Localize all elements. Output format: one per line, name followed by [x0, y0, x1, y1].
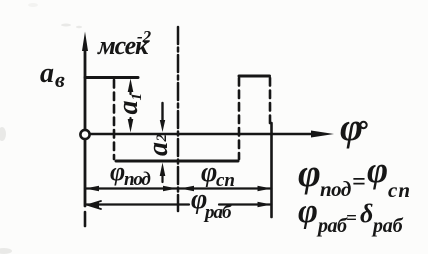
- svg-text:=: =: [352, 169, 366, 195]
- dimension a2: outside arrows across axis and lower line: [160, 103, 166, 182]
- svg-text:под: под: [124, 169, 150, 190]
- dimension a1: stem with arrows between top line and axis: [128, 79, 134, 133]
- label a2 (rotated): [143, 134, 174, 157]
- origin node circle: [80, 130, 89, 139]
- label phi_sp: [201, 157, 235, 191]
- horizontal axis (phi axis): [90, 133, 314, 136]
- dimension line 1 (phi_pod / phi_sp): [85, 186, 272, 192]
- lower level line (a2 level, negative pulse): [116, 160, 238, 163]
- dimension line 2 (phi_rab): [85, 201, 272, 209]
- svg-text:δ: δ: [360, 199, 373, 228]
- svg-text:раб: раб: [203, 202, 233, 223]
- svg-text:φ: φ: [298, 193, 318, 230]
- svg-text:сп: сп: [216, 170, 235, 191]
- svg-text:a: a: [40, 58, 54, 89]
- equation line 1: phi_pod = phi_sp: [298, 150, 411, 202]
- svg-text:1: 1: [129, 93, 145, 101]
- svg-text:раб: раб: [371, 215, 404, 237]
- svg-text:-2: -2: [137, 27, 152, 46]
- phi degree label: [340, 106, 363, 149]
- dashed vertical drop at x=114: [113, 80, 116, 159]
- equation line 2: phi_rab = delta_rab: [298, 193, 404, 237]
- vertical axis (acceleration axis): [84, 50, 87, 206]
- label a_B (left of axis): [40, 58, 65, 92]
- degree circle of phi label: [360, 122, 366, 128]
- second pulse top line: [239, 75, 270, 78]
- dashed vertical at x=269.5 (right pulse edge): [269, 78, 272, 124]
- svg-text:φ: φ: [298, 152, 321, 195]
- svg-text:φ: φ: [110, 157, 125, 186]
- svg-text:сп: сп: [388, 178, 411, 202]
- right extension line below axis: [270, 123, 273, 217]
- vertical axis arrowhead: [82, 32, 88, 52]
- svg-text:2: 2: [154, 134, 170, 143]
- svg-text:a: a: [113, 101, 144, 115]
- svg-text:под: под: [320, 177, 351, 201]
- label phi_pod: [110, 157, 150, 190]
- svg-text:=: =: [346, 208, 357, 229]
- axis unit label мсек^-2: [97, 27, 152, 60]
- svg-text:раб: раб: [316, 215, 348, 237]
- label phi_rab: [191, 184, 233, 223]
- svg-text:в: в: [55, 67, 65, 92]
- horizontal axis arrowhead: [311, 131, 334, 138]
- svg-text:a: a: [143, 142, 174, 156]
- top level line of first pulse (a1 level): [85, 76, 138, 79]
- dashed vertical rise at x=239: [238, 78, 241, 159]
- label a1 (rotated): [113, 93, 145, 115]
- dash-dot center line x=177: [177, 27, 180, 211]
- svg-text:φ: φ: [340, 106, 363, 149]
- svg-text:φ: φ: [367, 150, 388, 190]
